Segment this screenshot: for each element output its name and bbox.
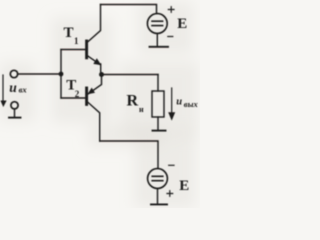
ground under E2 [157,188,159,203]
ground under resistor [153,130,166,132]
label u_вых [176,96,198,109]
transistor T1 emitter arrowhead [93,58,101,65]
plus sign E1 [168,7,174,13]
label T2 [66,77,80,99]
wire: base rail vertical [60,50,62,99]
resistor Rн lead bottom [157,117,159,130]
label u_вх [9,80,27,95]
wire: T1 base lead [61,49,85,51]
u_вых arrow [171,88,173,113]
svg-text:1: 1 [74,36,79,46]
node B (output node) [99,72,104,77]
transistor T2 emitter arrowhead (points to bar) [87,88,95,95]
transistor T1 collector lead [87,5,101,43]
wire: top rail to source E1 [101,5,157,14]
plus sign E2 [167,191,173,197]
label Rн [127,93,145,115]
input terminal (top, open circle) [10,70,17,77]
minus sign E2 [169,164,174,166]
svg-text:u: u [176,96,182,107]
svg-text:вх: вх [19,85,28,95]
svg-text:E: E [177,16,187,32]
svg-text:2: 2 [75,89,80,99]
svg-text:н: н [139,105,144,114]
svg-text:вых: вых [184,99,199,109]
wire: output node to resistor branch [102,74,158,76]
source E2 (bottom DC source) [148,169,168,189]
ground under E1 [156,33,158,46]
label T1 [64,25,80,46]
svg-text:R: R [127,93,139,110]
wire: T2 base lead [61,97,85,99]
resistor Rн lead top [157,75,159,92]
u_вх arrow (left) [2,75,4,101]
transistor T2 (PNP) base bar [85,88,88,104]
wire: input terminal to node A [18,73,60,75]
svg-text:E: E [179,178,189,194]
transistor T1 emitter lead with arrow [87,56,101,75]
transistor T2 emitter lead (from output node) [88,75,102,95]
wire: bottom rail to source E2 [100,141,158,168]
minus sign E1 [168,36,173,38]
source E1 (top DC source) [147,14,167,34]
svg-text:u: u [9,80,17,95]
svg-text:Т: Т [64,25,74,41]
ground under bottom terminal [14,109,16,117]
transistor T2 collector lead [87,102,100,142]
node A (junction of input and base rail) [59,72,64,77]
input terminal (bottom, open circle) [11,102,18,109]
resistor Rн body [152,91,164,117]
transistor T1 (NPN) base bar [85,41,88,58]
